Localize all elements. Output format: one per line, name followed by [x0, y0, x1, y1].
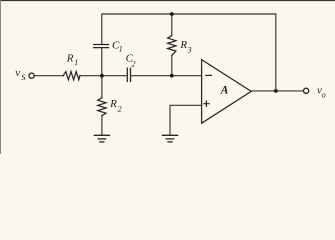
wire C2 to op-amp inverting input: [131, 75, 202, 77]
svg-text:2: 2: [118, 105, 122, 114]
ground (op-amp + input): [162, 135, 177, 142]
label vS: [15, 67, 26, 82]
label A (op-amp gain): [220, 84, 229, 96]
wire R1 to node A and to C2: [80, 75, 128, 77]
svg-text:A: A: [220, 84, 229, 96]
wire non-inverting input: [170, 105, 202, 134]
resistor R1: [63, 72, 80, 80]
svg-text:v: v: [15, 67, 20, 79]
top page border: [0, 0, 335, 1]
svg-text:1: 1: [119, 45, 123, 54]
junction dot R3 top: [170, 12, 174, 16]
capacitor C1: [94, 45, 109, 48]
svg-text:1: 1: [74, 58, 78, 67]
output terminal vo: [304, 88, 309, 93]
label vo: [317, 84, 326, 99]
svg-text:R: R: [179, 39, 187, 51]
wire R2 bottom lead: [101, 116, 103, 136]
wire R2 top lead: [101, 76, 103, 98]
label R1: [66, 53, 78, 68]
svg-text:3: 3: [187, 45, 192, 54]
wire R3 top lead: [171, 14, 173, 36]
svg-text:R: R: [66, 53, 74, 65]
svg-text:S: S: [21, 72, 26, 82]
input terminal vS: [29, 73, 34, 78]
wire op-amp output: [251, 90, 303, 92]
node A junction dot: [100, 74, 104, 78]
svg-text:o: o: [322, 91, 326, 100]
wire input to R1: [35, 75, 64, 77]
label C1: [112, 40, 123, 54]
wire R3 bottom lead: [171, 56, 173, 76]
op-amp A: [202, 60, 252, 124]
wire C1 top lead and top feedback rail: [102, 14, 276, 45]
svg-text:2: 2: [132, 60, 136, 69]
label R3: [179, 39, 191, 54]
resistor R2: [98, 98, 106, 116]
label R2: [109, 98, 122, 114]
junction dot R3 bottom: [170, 74, 174, 78]
wire feedback drop to output node: [275, 14, 277, 91]
junction dot output node: [274, 89, 278, 93]
svg-text:R: R: [109, 98, 117, 110]
ground (below R2): [94, 135, 109, 142]
capacitor C2: [127, 68, 130, 81]
wire C1 bottom lead: [101, 48, 103, 76]
left page border: [0, 0, 1, 154]
label C2: [126, 52, 136, 68]
resistor R3: [168, 36, 176, 56]
op-amp minus sign: [206, 74, 212, 76]
op-amp plus sign: [204, 101, 209, 106]
